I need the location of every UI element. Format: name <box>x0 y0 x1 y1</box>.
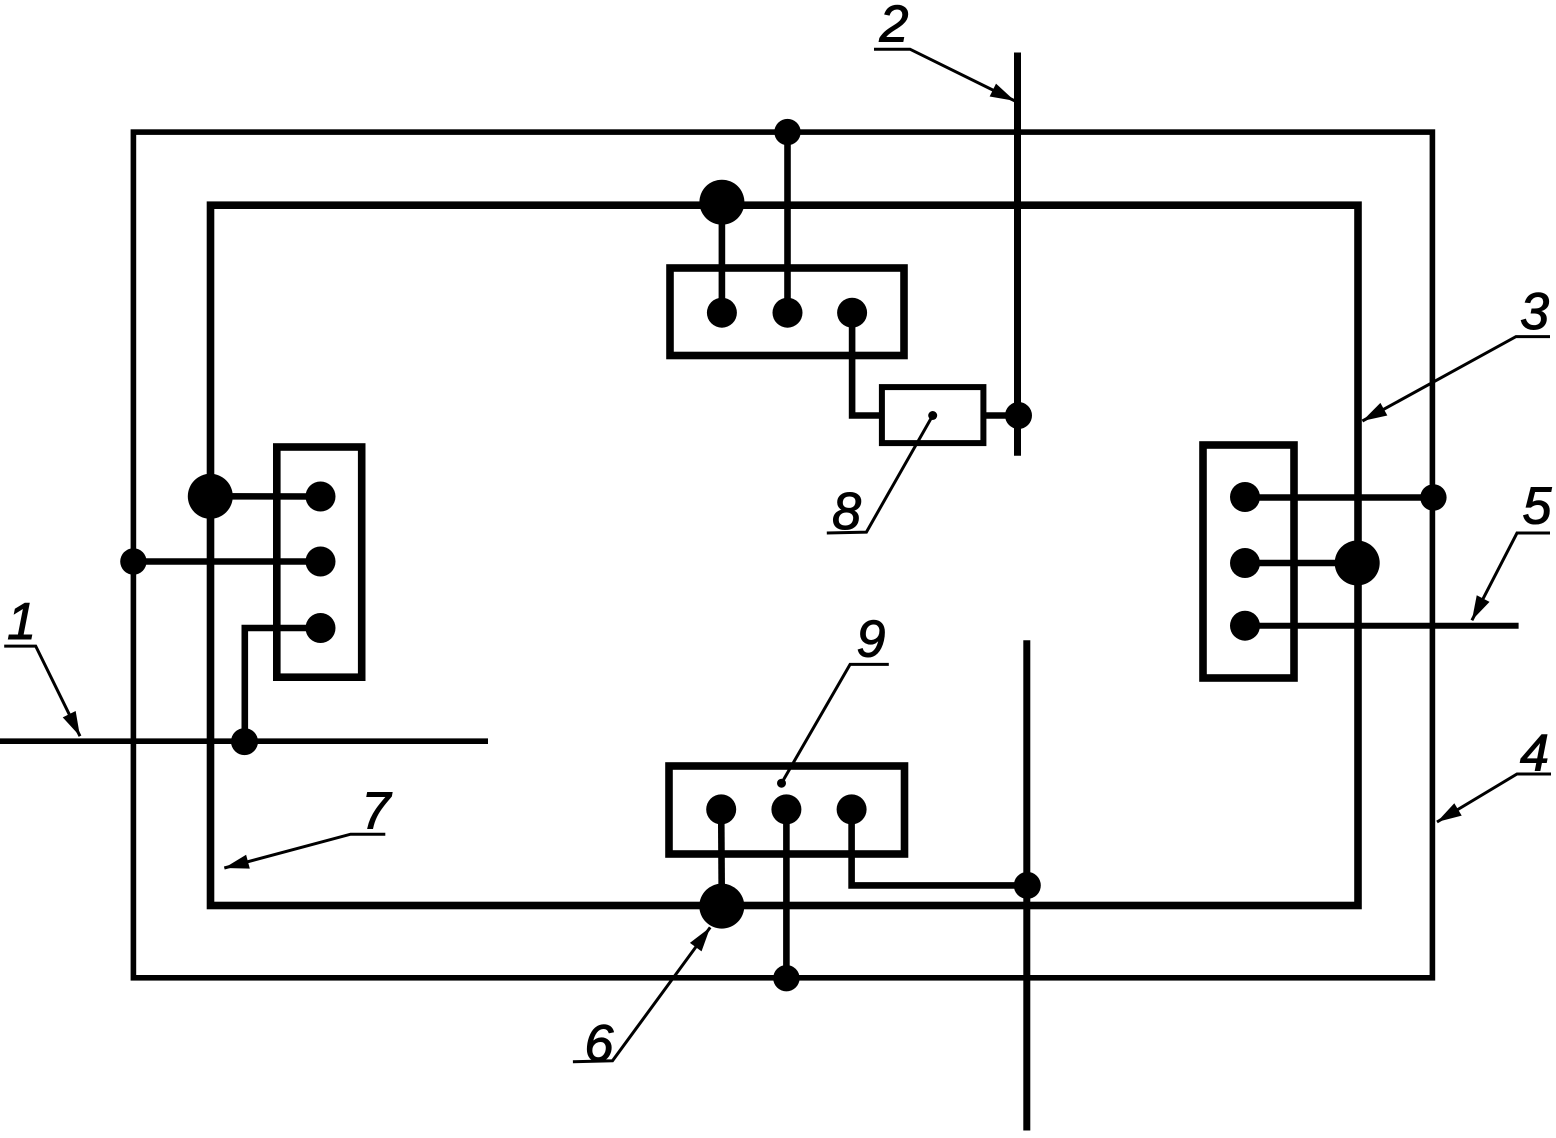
leader 6 <box>573 927 710 1061</box>
supply line 2 (vertical) <box>1014 53 1021 456</box>
wire top pin1 to inner loop <box>719 202 726 313</box>
junction dot on outer loop bottom <box>773 965 799 991</box>
wire resistor to line 2 <box>983 412 1018 419</box>
svg-text:2: 2 <box>879 0 909 53</box>
junction dot on line 2 <box>1005 402 1032 429</box>
wire top pin2 to outer loop <box>784 132 791 313</box>
terminal block (left) <box>277 447 362 677</box>
wire right pin2 to inner loop <box>1245 560 1357 567</box>
right block pin 2 dot <box>1230 548 1260 578</box>
inner loop conductor (net 7 / 3) <box>211 205 1359 905</box>
leader 9 end dot <box>777 779 786 788</box>
leader 5 <box>1472 533 1550 620</box>
junction dot on outer loop left <box>120 548 146 574</box>
terminal block 9 (bottom) <box>669 766 905 854</box>
bottom block pin 2 dot <box>771 794 801 824</box>
leader 1 <box>4 646 80 736</box>
top block pin 1 dot <box>707 298 737 328</box>
resistor 8 body <box>882 387 984 443</box>
terminal block 9 (top) <box>670 268 904 356</box>
left block pin 2 dot <box>306 547 336 577</box>
leader 2 <box>874 49 1015 101</box>
junction big dot top <box>699 180 744 225</box>
bottom block pin 3 dot <box>837 794 867 824</box>
wire bottom pin3 to lower supply line <box>852 809 1028 885</box>
top block pin 2 dot <box>773 298 803 328</box>
svg-text:1: 1 <box>7 593 36 651</box>
input line 1 (horizontal) <box>0 738 488 744</box>
junction big dot left <box>188 474 233 519</box>
top block pin 3 dot <box>837 298 867 328</box>
svg-text:7: 7 <box>362 782 393 840</box>
outer loop conductor (net 4) <box>133 132 1432 978</box>
wire left pin2 to outer loop <box>133 558 321 565</box>
junction dot on lower supply line <box>1014 872 1041 899</box>
svg-text:3: 3 <box>1520 283 1549 341</box>
junction big dot right <box>1335 541 1380 586</box>
leader 4 <box>1437 774 1551 822</box>
leader 9 <box>782 664 889 783</box>
right block pin 1 dot <box>1230 482 1260 512</box>
left block pin 1 dot <box>306 482 336 512</box>
leader 3 <box>1362 337 1550 421</box>
junction dot on line 1 <box>231 728 258 755</box>
right block pin 3 dot <box>1230 611 1260 641</box>
svg-text:6: 6 <box>585 1015 614 1073</box>
leader 8 <box>827 416 933 534</box>
wire left pin3 to line 1 <box>245 628 321 742</box>
wire top pin3 to resistor 8 <box>852 313 884 416</box>
output line 5 (horizontal, from right pin3) <box>1245 623 1519 629</box>
bottom block pin 1 dot <box>706 794 736 824</box>
wire right pin1 to outer loop <box>1245 494 1433 501</box>
junction dot on outer loop top <box>774 119 800 145</box>
leader 8 end dot <box>928 411 937 420</box>
svg-text:5: 5 <box>1523 477 1553 535</box>
wire left pin1 to inner loop <box>210 493 320 500</box>
wire bottom pin1 to inner loop <box>718 809 725 906</box>
left block pin 3 dot <box>306 613 336 643</box>
svg-text:9: 9 <box>857 611 886 669</box>
junction big dot 6 <box>699 884 744 929</box>
wire bottom pin2 to outer loop <box>783 809 790 978</box>
leader 7 <box>224 834 385 868</box>
terminal block (right) <box>1203 445 1294 678</box>
lower supply line (vertical) <box>1023 640 1030 1130</box>
junction dot on outer loop right <box>1420 484 1446 510</box>
